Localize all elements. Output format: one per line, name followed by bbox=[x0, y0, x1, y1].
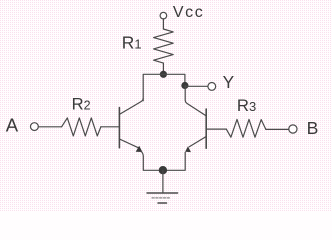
svg-text:Y: Y bbox=[223, 72, 235, 92]
resistor R3 bbox=[226, 119, 265, 137]
terminal A bbox=[31, 123, 39, 131]
resistor R1 bbox=[154, 29, 174, 63]
wire R3 to B bbox=[266, 128, 289, 130]
wire emitter Q2 to common node bbox=[163, 152, 185, 170]
wire to ground bbox=[162, 170, 164, 193]
svg-text:A: A bbox=[6, 114, 19, 135]
svg-text:Vcc: Vcc bbox=[173, 4, 204, 21]
transistor Q1 bbox=[119, 99, 143, 153]
node common emitter junction bbox=[159, 166, 167, 174]
wire collector rail left bbox=[143, 74, 163, 101]
wire emitter Q1 to common node bbox=[141, 152, 163, 171]
wire A to R2 bbox=[38, 126, 61, 128]
svg-text:R3: R3 bbox=[237, 96, 256, 115]
wire base Q2 to R3 bbox=[206, 128, 226, 130]
node junction output Y bbox=[181, 82, 188, 89]
wire R1 to node bbox=[162, 63, 164, 74]
terminal Y bbox=[208, 83, 216, 91]
wire to Y terminal bbox=[185, 85, 208, 87]
ground bbox=[147, 193, 178, 203]
wire collector rail right bbox=[163, 74, 185, 85]
svg-text:B: B bbox=[307, 118, 319, 138]
wire R2 to base Q1 bbox=[101, 126, 120, 128]
transistor Q2 bbox=[185, 86, 206, 153]
node junction below R1 bbox=[160, 71, 167, 78]
terminal B bbox=[289, 125, 297, 133]
wire Vcc stub bbox=[162, 19, 164, 29]
terminal Vcc bbox=[160, 12, 167, 19]
resistor R2 bbox=[62, 118, 101, 136]
